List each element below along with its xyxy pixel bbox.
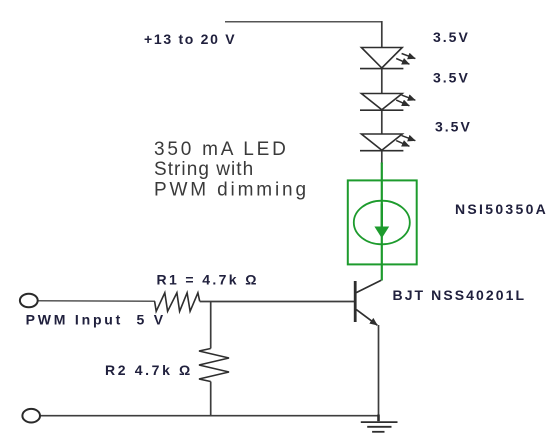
svg-text:R2 4.7k Ω: R2 4.7k Ω: [105, 362, 193, 378]
svg-text:350 mA LED: 350 mA LED: [154, 139, 289, 160]
svg-text:+13 to 20 V: +13 to 20 V: [144, 31, 236, 47]
svg-text:3.5V: 3.5V: [433, 29, 470, 45]
svg-text:BJT NSS40201L: BJT NSS40201L: [393, 287, 527, 303]
svg-text:3.5V: 3.5V: [433, 69, 470, 85]
svg-text:3.5V: 3.5V: [435, 118, 472, 134]
svg-text:NSI50350A: NSI50350A: [455, 201, 548, 217]
svg-text:PWM dimming: PWM dimming: [154, 180, 309, 201]
svg-text:R1 = 4.7k Ω: R1 = 4.7k Ω: [157, 272, 259, 288]
svg-text:String with: String with: [154, 159, 254, 180]
svg-text:PWM Input 5 V: PWM Input 5 V: [26, 312, 166, 328]
